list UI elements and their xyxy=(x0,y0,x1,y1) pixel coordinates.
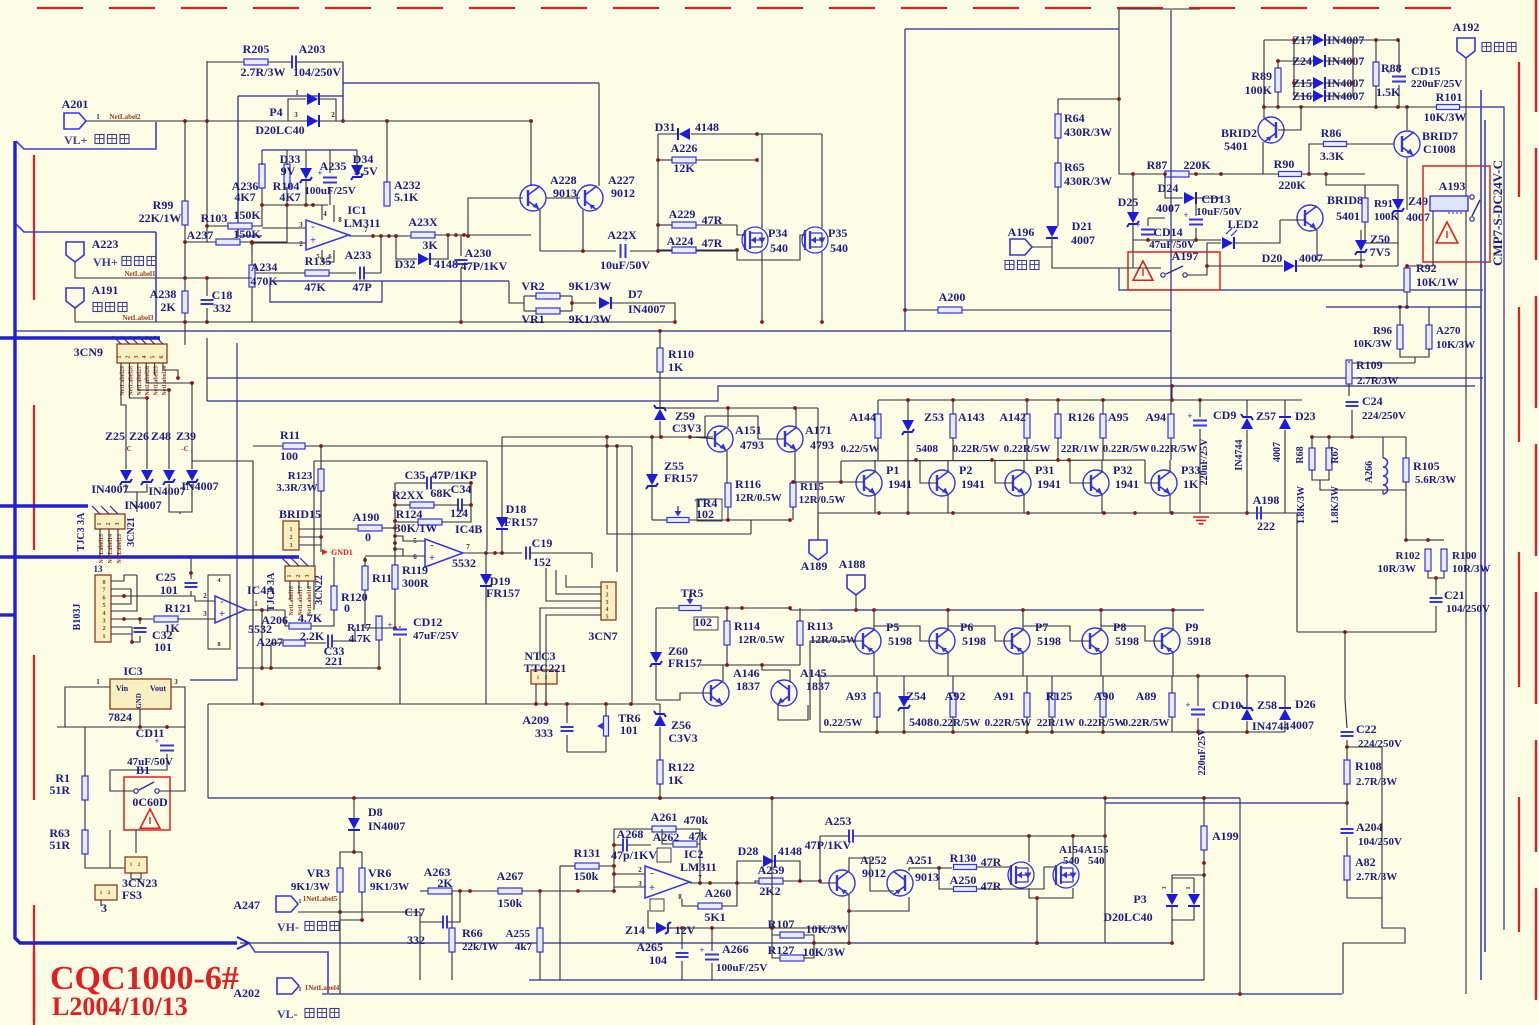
resistor A82 xyxy=(1344,856,1350,880)
svg-text:5532: 5532 xyxy=(452,556,476,570)
svg-text:220K: 220K xyxy=(1183,158,1211,172)
wire IC2 in2 xyxy=(614,873,645,875)
ground power row xyxy=(1193,516,1209,518)
svg-text:R86: R86 xyxy=(1321,126,1342,140)
svg-text:R122: R122 xyxy=(668,760,695,774)
wire TR5 left down xyxy=(655,608,657,652)
svg-text:IC1: IC1 xyxy=(347,203,366,217)
wire IC3 pin1 xyxy=(65,687,110,727)
svg-text:FR157: FR157 xyxy=(504,515,538,529)
wire D18 col xyxy=(501,437,503,517)
svg-text:A197: A197 xyxy=(1172,249,1199,263)
junction dots y704 center xyxy=(534,702,633,706)
svg-text:4K7: 4K7 xyxy=(279,190,300,204)
wire y461 mid segment xyxy=(314,460,487,462)
svg-text:3: 3 xyxy=(115,523,121,526)
inductor A266 xyxy=(1383,458,1388,467)
connector A201 xyxy=(64,113,86,129)
svg-text:D23: D23 xyxy=(1295,409,1316,423)
svg-text:A92: A92 xyxy=(945,689,966,703)
wire A228 emitter xyxy=(539,210,541,251)
capacitor CD13 electrolytic xyxy=(1189,219,1203,221)
svg-text:+: + xyxy=(387,620,392,630)
potentiometer TR6 xyxy=(604,716,609,736)
junction dots fet drains xyxy=(1027,834,1075,838)
svg-text:10R/3W: 10R/3W xyxy=(1378,563,1417,575)
wire IC4A out right xyxy=(262,609,285,611)
wire R64 top xyxy=(1057,99,1059,114)
svg-text:4007: 4007 xyxy=(1406,210,1430,224)
wire y302 loop xyxy=(270,281,382,302)
regulator IC3 xyxy=(110,679,171,709)
capacitor A203 xyxy=(291,56,293,69)
resistor R67 xyxy=(1326,448,1332,470)
svg-text:2.7R/3W: 2.7R/3W xyxy=(1356,871,1397,883)
svg-text:A227: A227 xyxy=(608,173,635,187)
junction dot 3CN9 xyxy=(176,376,180,380)
wire x1105 down xyxy=(1104,836,1106,943)
wire Z53 xyxy=(907,400,909,420)
mosfet P34 xyxy=(742,227,768,253)
svg-text:-: - xyxy=(650,867,654,879)
svg-text:0.22R/5W: 0.22R/5W xyxy=(934,717,981,729)
resistor R119 xyxy=(392,565,398,589)
wire Z59 bottom xyxy=(659,421,661,437)
wire Z14 xyxy=(648,910,655,928)
diode D26 xyxy=(1279,709,1291,720)
wire TR6 xyxy=(605,704,607,716)
wire A193 coil down xyxy=(1407,211,1433,266)
resistor A92 xyxy=(950,693,956,717)
wire x614 col xyxy=(613,829,615,891)
svg-text:0.22R/5W: 0.22R/5W xyxy=(1079,717,1126,729)
transistor P32 xyxy=(1083,470,1109,496)
svg-text:IN4007: IN4007 xyxy=(628,302,665,316)
svg-text:A229: A229 xyxy=(669,207,696,221)
wire rail y378 xyxy=(207,377,1483,379)
svg-text:C21: C21 xyxy=(1444,588,1465,602)
diode D7 xyxy=(599,297,610,309)
svg-text:R100: R100 xyxy=(1452,550,1477,562)
wire A228 collector xyxy=(530,121,532,186)
svg-text:470k: 470k xyxy=(684,813,709,827)
svg-text:R90: R90 xyxy=(1274,157,1295,171)
svg-text:0.22/5W: 0.22/5W xyxy=(841,443,880,455)
zener Z57 xyxy=(1241,418,1253,429)
wire A95 leads xyxy=(1102,400,1104,414)
wire A263 left xyxy=(420,890,428,892)
svg-text:D28: D28 xyxy=(738,844,759,858)
transistor P33 xyxy=(1151,470,1177,496)
wire A228-A227 bases xyxy=(546,197,580,199)
wire P6 leads xyxy=(947,610,949,629)
svg-text:A196: A196 xyxy=(1008,225,1035,239)
svg-text:Z14: Z14 xyxy=(625,923,645,937)
svg-text:13: 13 xyxy=(94,564,104,574)
resistor R102 xyxy=(1425,549,1431,571)
junction dot R119 xyxy=(393,626,397,630)
svg-text:150k: 150k xyxy=(574,869,599,883)
wire VR pair left xyxy=(509,281,524,303)
wire R120 top xyxy=(333,557,335,586)
wire y704 row center xyxy=(400,703,660,705)
transistor P6 xyxy=(929,628,955,654)
svg-text:TR5: TR5 xyxy=(681,586,704,600)
junction dots y460 xyxy=(914,458,1071,462)
svg-text:Z57: Z57 xyxy=(1256,409,1276,423)
junction dot P1 base xyxy=(839,480,843,484)
wire A23X out xyxy=(435,234,531,236)
junction dots VR xyxy=(338,910,364,922)
junction dot R122 xyxy=(658,796,662,800)
svg-text:D7: D7 xyxy=(628,287,643,301)
svg-text:47uF/25V: 47uF/25V xyxy=(413,630,459,642)
svg-text:A226: A226 xyxy=(671,141,698,155)
junction dots IC2 out xyxy=(698,881,712,885)
svg-text:6: 6 xyxy=(103,595,106,601)
wire A146 base xyxy=(656,693,711,700)
junction dots y676 xyxy=(1196,674,1249,678)
wire R119 xyxy=(394,540,396,565)
svg-text:A189: A189 xyxy=(801,559,828,573)
svg-text:A91: A91 xyxy=(994,689,1015,703)
svg-text:A207: A207 xyxy=(256,635,283,649)
resistor R127 xyxy=(780,955,804,961)
svg-text:5401: 5401 xyxy=(1224,139,1248,153)
wire A191 pin xyxy=(75,308,185,322)
svg-text:D24: D24 xyxy=(1158,181,1179,195)
wire P4 top diode xyxy=(288,99,306,121)
diode P4 top xyxy=(307,93,318,105)
wire x1171 vertical xyxy=(1170,10,1172,400)
wire A151 collector xyxy=(727,408,729,427)
svg-text:220K: 220K xyxy=(1278,178,1306,192)
wire x1294 link xyxy=(1293,40,1295,96)
wire A250 feed xyxy=(939,868,953,889)
wire A92 leads xyxy=(952,676,954,693)
svg-text:R65: R65 xyxy=(1064,160,1085,174)
op-amp IC4B xyxy=(425,539,463,567)
svg-text:0.22R/5W: 0.22R/5W xyxy=(985,717,1032,729)
svg-text:R124: R124 xyxy=(396,507,423,521)
resistor R101 xyxy=(1437,105,1460,110)
svg-text:5198: 5198 xyxy=(1037,634,1061,648)
svg-text:A234: A234 xyxy=(251,260,278,274)
bus VL left vertical xyxy=(15,141,237,943)
zener Z58 xyxy=(1241,709,1253,720)
svg-text:A146: A146 xyxy=(733,666,760,680)
diode Z24 xyxy=(1313,55,1324,67)
wire R64-R65 xyxy=(1057,138,1059,163)
capacitor A265 xyxy=(676,952,689,954)
zener Z54 xyxy=(898,696,910,707)
svg-text:A253: A253 xyxy=(825,814,852,828)
wire rail y331 xyxy=(15,330,1171,332)
svg-text:2K: 2K xyxy=(160,300,176,314)
junction dot x1119 y99 xyxy=(1117,97,1121,101)
zener D25 xyxy=(1127,212,1139,223)
svg-text:0.22R/5W: 0.22R/5W xyxy=(1103,443,1150,455)
wire x658 col xyxy=(657,134,659,251)
svg-text:2: 2 xyxy=(290,535,293,541)
wire CD15 xyxy=(1398,40,1400,73)
svg-text:3.3K: 3.3K xyxy=(1320,149,1345,163)
wire A232 top xyxy=(386,121,388,182)
wire rail y399-386 xyxy=(207,386,1475,401)
wire y83 top xyxy=(343,82,599,84)
wire 3CN23 pins xyxy=(130,873,132,879)
wire y752 row xyxy=(567,751,606,753)
wire R116 xyxy=(726,451,728,483)
resistor A238 xyxy=(182,291,188,313)
power port GND1 xyxy=(322,549,328,555)
wire CD9 xyxy=(1199,400,1201,417)
junction dots diode grp xyxy=(145,381,194,400)
svg-text:FS3: FS3 xyxy=(122,888,142,902)
svg-text:7V5: 7V5 xyxy=(1370,245,1391,259)
svg-text:10K/3W: 10K/3W xyxy=(1353,338,1392,350)
border frame top dashed xyxy=(37,7,1462,9)
wire P2 leads xyxy=(947,460,949,471)
resistor A261 xyxy=(652,826,676,832)
wire x1345 down xyxy=(1344,632,1346,700)
wire D24 xyxy=(1165,174,1183,198)
zener Z50 xyxy=(1355,240,1367,251)
wire D7 out xyxy=(612,303,675,322)
svg-text:3CN22: 3CN22 xyxy=(314,575,325,604)
junction dots A23X out xyxy=(446,233,466,237)
wire lower row bottom rail xyxy=(820,731,1285,733)
pin numbers 3CN7 xyxy=(606,585,609,621)
svg-text:R130: R130 xyxy=(950,851,977,865)
capacitor A266 electrolytic xyxy=(705,954,719,956)
resistor A250 xyxy=(954,887,977,892)
svg-text:IN4007: IN4007 xyxy=(91,482,128,496)
svg-text:2.7R/3W: 2.7R/3W xyxy=(1357,375,1398,387)
svg-text:540: 540 xyxy=(1063,855,1080,867)
svg-text:A251: A251 xyxy=(906,853,933,867)
wire y280 horizontal xyxy=(270,280,509,282)
junction dot x617 xyxy=(615,444,619,448)
junction dot CD9 top xyxy=(1198,398,1202,402)
label A191 pin xyxy=(93,303,102,312)
capacitor CD15 electrolytic xyxy=(1392,76,1406,78)
wire collector rail y408 xyxy=(660,407,818,409)
svg-text:1K: 1K xyxy=(668,360,684,374)
svg-text:FR157: FR157 xyxy=(664,471,698,485)
resistor R123 xyxy=(318,469,324,491)
wire x1406 down xyxy=(1405,490,1407,540)
red box A193 xyxy=(1423,166,1490,262)
relay A193 coil xyxy=(1430,196,1468,211)
wire A197 net xyxy=(1119,267,1161,269)
svg-text:7: 7 xyxy=(466,543,470,551)
svg-text:3: 3 xyxy=(606,600,609,606)
bus rail y557 xyxy=(0,555,299,558)
wire A266 R105 bottom xyxy=(1383,482,1406,494)
wire R99 top xyxy=(184,121,186,201)
resistor A224 xyxy=(672,247,696,253)
resistor A90 xyxy=(1100,693,1106,717)
svg-text:1.5K: 1.5K xyxy=(1376,85,1401,99)
svg-text:+: + xyxy=(429,552,435,564)
junction dots R99 col xyxy=(183,240,187,324)
wire B1 right xyxy=(159,727,185,791)
pin numbers 3CN9 xyxy=(117,356,165,359)
wire y437 row xyxy=(1312,436,1406,438)
resistor A200 xyxy=(938,307,962,313)
wire x1353 xyxy=(1352,40,1354,96)
wire R11 xyxy=(253,445,283,447)
wire IC1 pin4 pin8 xyxy=(321,205,323,220)
wire R122 bottom xyxy=(659,784,661,798)
resistor A89 xyxy=(1169,693,1175,717)
svg-text:Z48: Z48 xyxy=(151,429,171,443)
junction dots y732 right xyxy=(1196,730,1249,734)
svg-text:3CN9: 3CN9 xyxy=(74,345,103,359)
wire VR pair box xyxy=(523,296,525,311)
transistor A251 xyxy=(887,870,913,896)
resistor A94 xyxy=(1168,414,1174,438)
wire power row top rail xyxy=(878,399,1302,401)
resistor R130 xyxy=(954,865,977,870)
junction dots y727 xyxy=(138,725,169,729)
resistor R124 xyxy=(418,519,442,525)
resistor R2XX xyxy=(410,502,434,508)
capacitor A204 xyxy=(1341,828,1354,830)
pin numbers 3CN22 xyxy=(287,575,311,578)
svg-text:150k: 150k xyxy=(498,896,523,910)
svg-text:VR6: VR6 xyxy=(368,866,391,880)
wire x208 down xyxy=(207,704,209,798)
svg-text:4007: 4007 xyxy=(1290,718,1314,732)
svg-text:1NetLabel5: 1NetLabel5 xyxy=(303,895,338,903)
junction dot VR right xyxy=(570,301,574,305)
bus hatches 3CN22 xyxy=(282,558,308,566)
svg-text:A82: A82 xyxy=(1355,855,1376,869)
svg-text:Z50: Z50 xyxy=(1370,232,1390,246)
wire P31 leads xyxy=(1023,460,1025,471)
wire A171 collector xyxy=(795,408,797,427)
wire IC2 in3 xyxy=(614,886,645,888)
svg-text:VR1: VR1 xyxy=(521,312,544,326)
wire R110 top xyxy=(659,331,661,348)
svg-text:4793: 4793 xyxy=(810,438,834,452)
zener Z55 xyxy=(646,474,658,485)
svg-text:47P: 47P xyxy=(352,280,371,294)
wire IC1 output xyxy=(349,235,412,237)
wire A252 A251 link xyxy=(849,858,894,891)
wire CD10 xyxy=(1197,676,1199,706)
diode P3 a xyxy=(1166,894,1178,905)
junction dots D20 xyxy=(1205,264,1409,268)
svg-text:P4: P4 xyxy=(269,105,282,119)
junction dot x207 y226 xyxy=(205,224,209,228)
wire small conn pin xyxy=(100,900,102,906)
svg-text:A171: A171 xyxy=(805,423,832,437)
svg-text:47uF/50V: 47uF/50V xyxy=(127,756,173,768)
junction dots y205 xyxy=(260,203,315,207)
wire Z56 xyxy=(659,704,661,714)
resistor A190 xyxy=(358,525,382,531)
transistor A228 xyxy=(520,185,546,211)
svg-text:VH-: VH- xyxy=(277,920,299,934)
svg-text:R103: R103 xyxy=(201,211,228,225)
wire power row bottom rail xyxy=(818,512,1203,514)
svg-text:A223: A223 xyxy=(92,237,119,251)
wire D28 loop xyxy=(737,861,762,883)
resistor R107 xyxy=(780,932,804,938)
svg-text:51R: 51R xyxy=(49,783,70,797)
svg-text:CMP7-S-DC24V-C: CMP7-S-DC24V-C xyxy=(1490,160,1505,266)
resistor R96 xyxy=(1397,325,1403,349)
svg-text:5198: 5198 xyxy=(888,634,912,648)
svg-text:224/250V: 224/250V xyxy=(1358,738,1402,750)
wire row y668 xyxy=(237,667,379,669)
resistor A234 xyxy=(249,265,255,287)
svg-text:+: + xyxy=(1135,220,1140,230)
wire A145 emitter xyxy=(778,705,808,720)
svg-text:A199: A199 xyxy=(1212,829,1239,843)
wire C35 loop xyxy=(395,482,427,484)
resistor R104 xyxy=(284,164,290,188)
resistor R125 xyxy=(1049,693,1055,717)
junction dots TR5 xyxy=(725,606,792,610)
wire R114 xyxy=(726,608,728,621)
svg-text:12R/0.5W: 12R/0.5W xyxy=(810,634,857,646)
svg-text:C3V3: C3V3 xyxy=(672,421,701,435)
wire D33 bottom xyxy=(305,181,307,205)
transistor BRID2 xyxy=(1258,117,1284,143)
svg-text:540: 540 xyxy=(770,241,788,255)
junction dots y798 xyxy=(658,796,1206,800)
wire R90 xyxy=(1221,173,1278,175)
diode D18 xyxy=(496,517,508,528)
svg-text:IN4744: IN4744 xyxy=(1234,439,1245,470)
wire R130 to A154 xyxy=(977,866,1010,868)
wire drain row y134 xyxy=(757,133,822,135)
wire lower row mid rail xyxy=(820,675,1172,677)
junction dot y251 xyxy=(581,249,585,253)
red box A197 xyxy=(1128,252,1220,290)
svg-text:R105: R105 xyxy=(1413,459,1440,473)
connector A247 xyxy=(276,896,298,912)
svg-text:-C: -C xyxy=(124,445,131,453)
svg-text:A233: A233 xyxy=(345,248,372,262)
switch A197 xyxy=(1161,273,1165,277)
wire R68 R67 bottom xyxy=(1312,470,1329,480)
svg-text:D20LC40: D20LC40 xyxy=(1103,910,1152,924)
svg-text:540: 540 xyxy=(1088,855,1105,867)
svg-text:A270: A270 xyxy=(1436,325,1461,337)
svg-text:C17: C17 xyxy=(404,905,425,919)
svg-text:2: 2 xyxy=(331,111,335,119)
zener D33 xyxy=(300,168,312,179)
junction dots R96 top xyxy=(1398,305,1409,309)
svg-text:3.5V: 3.5V xyxy=(354,164,378,178)
junction dots TR4 xyxy=(726,518,792,522)
wire CD11 bottom xyxy=(110,754,167,770)
svg-text:R68: R68 xyxy=(1295,446,1306,463)
svg-text:0C60D: 0C60D xyxy=(132,795,168,809)
svg-text:P34: P34 xyxy=(768,226,787,240)
svg-text:R109: R109 xyxy=(1356,358,1383,372)
led LED2 xyxy=(1222,237,1233,249)
junction dots R2XX area xyxy=(469,481,473,507)
junction dot pin2 xyxy=(319,535,323,539)
wire R66 xyxy=(451,891,453,928)
wire rail y798 xyxy=(208,797,1240,799)
